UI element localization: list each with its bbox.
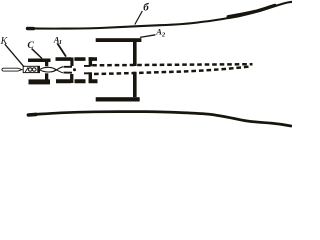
leader line for С [32,49,42,59]
second anode A2 top bar [96,38,142,42]
A1 diaphragm 2 top tooth [89,57,92,66]
second anode A2 vertical wall upper part [133,42,137,67]
beam crossover X [54,67,64,73]
heater filament lead [2,68,22,71]
modulator C aperture wall top stub [45,62,48,66]
A1 diaphragm 1 bottom tooth [70,74,73,83]
cathode hatch scribble [25,67,28,72]
A1 diaphragm 2 bottom tooth [89,72,92,83]
leader line for А1 [57,43,66,56]
beam upper boundary inside A1 [64,65,91,68]
cathode K sleeve [23,66,39,72]
first anode A1 bottom rail [56,79,98,83]
first anode A1 top rail [56,57,98,61]
electron beam lower dashed line [94,66,251,74]
modulator C aperture wall bottom stub [45,73,48,79]
bulb envelope top curve blunt start [28,27,34,31]
beam lower boundary inside A1 [64,72,91,75]
electron beam upper dashed line [92,64,252,65]
svg-text:К: К [0,36,9,47]
svg-text:2: 2 [161,31,166,38]
bulb envelope top curve pressure stroke [228,5,275,16]
bulb envelope top curve [27,2,292,29]
modulator C bottom bar [29,79,51,84]
modulator C top bar [28,59,51,63]
bulb envelope bottom curve blunt start [29,113,37,117]
second anode A2 bottom bar [96,97,140,101]
beam lens between cathode and crossover [40,67,57,72]
svg-text:б: б [143,1,149,13]
bulb envelope bottom curve [28,112,291,126]
leader line for б [135,11,143,25]
leader line for К [5,44,24,67]
cathode emitting end (thick right wall) [37,66,40,73]
A1 diaphragm 1 top tooth [70,58,73,67]
beam focal dot inside A1 [73,68,76,71]
second anode A2 vertical wall lower part [133,72,137,97]
leader line for А2 [140,35,155,38]
